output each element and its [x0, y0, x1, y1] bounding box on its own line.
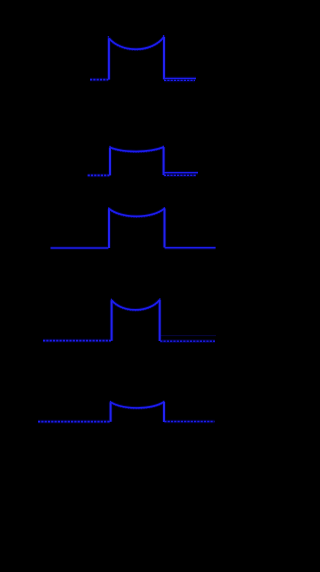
pulse 2 dotted companion top curve — [110, 148, 164, 152]
glow of pulse 5 — [38, 402, 215, 422]
pulse 1 peak tip dots — [108, 35, 165, 38]
pulse 4 peak tip dots — [111, 298, 161, 300]
pulse 2 left baseline (dashed) — [88, 174, 110, 176]
pulse 4 left baseline (dashed) — [43, 340, 111, 342]
glow of pulse 2 — [88, 147, 198, 175]
pulse trace 3 — [51, 207, 216, 248]
pulse 1 falling edge — [163, 37, 165, 80]
pulse 2 sagging top curve — [110, 147, 164, 151]
pulse 3 rising edge — [108, 209, 110, 248]
pulse 5 falling edge — [163, 402, 165, 422]
pulse 3 right baseline (solid) — [165, 247, 216, 249]
pulse 2 right baseline upper (solid) — [164, 172, 198, 174]
pulse 5 left baseline (dashed) — [38, 421, 110, 423]
pulse trace 1 (top waveform) — [90, 35, 196, 80]
pulse 3 left baseline (solid) — [51, 247, 109, 249]
pulse 4 right baseline (dashed) — [160, 340, 215, 342]
pulse 1 dotted companion top curve — [109, 38, 164, 50]
pulse trace 5 (bottom waveform) — [38, 401, 215, 422]
pulse trace 2 — [88, 146, 198, 176]
pulse 5 dotted companion top curve — [111, 403, 164, 409]
pulse 5 right baseline (dashed) — [164, 421, 214, 423]
pulse 5 peak tip dots — [110, 401, 165, 403]
pulse trace 4 — [43, 298, 216, 341]
pulse 1 right baseline upper (solid) — [164, 77, 196, 79]
pulse 3 sagging top curve — [109, 208, 165, 216]
pulse 2 right baseline lower (dashed) — [164, 174, 196, 176]
pulse 3 peak tip dots — [108, 207, 165, 209]
pulse 1 rising edge — [108, 38, 110, 79]
glow of pulse 4 — [43, 300, 215, 341]
pulse 1 left baseline (dashed) — [90, 79, 108, 81]
pulse 1 right baseline lower (dashed) — [164, 79, 195, 81]
pulse 2 rising edge — [109, 147, 111, 175]
pulse 4 dotted companion top curve — [112, 301, 160, 311]
pulse 4 sagging top curve — [112, 300, 160, 310]
glow of pulse 3 — [51, 208, 216, 248]
pulse 5 rising edge — [110, 402, 112, 422]
pulse 2 falling edge — [163, 147, 165, 175]
pulse 3 falling edge — [164, 208, 166, 247]
pulse 4 rising edge — [111, 300, 113, 341]
pulse 5 sagging top curve — [111, 402, 164, 408]
pulse 3 dotted companion top curve — [109, 209, 165, 217]
pulse 1 sagging top curve — [109, 37, 164, 49]
pulse 4 right faint tail line — [160, 335, 216, 337]
pulse 2 peak tip dots — [109, 146, 164, 148]
pulse 4 falling edge — [159, 300, 161, 341]
glow of pulse 1 — [90, 37, 196, 81]
